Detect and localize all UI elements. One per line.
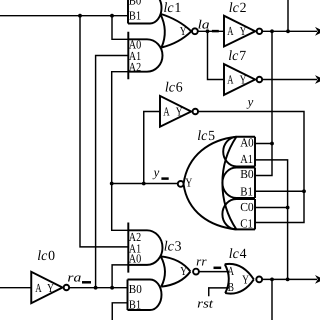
inverter lc2 xyxy=(224,16,255,47)
and-gate lc5 upper (A0,A1) mirrored xyxy=(223,137,255,167)
inverter lc0 xyxy=(31,272,62,303)
svg-text:y: y xyxy=(152,166,160,180)
svg-text:Y: Y xyxy=(240,73,247,87)
and-gate lc5 lower (C0,C1) mirrored xyxy=(222,199,255,229)
wire: lc1.A1 down to ra net xyxy=(96,56,129,288)
svg-text:A: A xyxy=(35,281,41,295)
svg-text:Y: Y xyxy=(180,24,187,38)
svg-text:ra: ra xyxy=(67,270,81,284)
svg-text:B0: B0 xyxy=(129,282,142,296)
svg-text:lc2: lc2 xyxy=(229,1,247,16)
wire: lc1.A2 / y_ / lc3.A2 bus xyxy=(112,72,129,231)
junction node: y_ / A2 bus xyxy=(110,182,114,186)
and-gate lc5 middle (B0,B1) mirrored xyxy=(222,168,255,199)
junction node: ra / lc1.A1 bus xyxy=(94,286,98,290)
junction node: lc2 out / top feedback xyxy=(286,29,290,33)
junction node: y_ / lc6 branch xyxy=(142,182,146,186)
wire: feedback from top edge into lc2 output net xyxy=(287,0,289,31)
arrowhead: lc2 output xyxy=(315,27,320,36)
svg-text:lc5: lc5 xyxy=(197,129,215,144)
and-gate lc1 upper (B0,B1) xyxy=(128,0,162,24)
svg-text:C0: C0 xyxy=(240,200,254,214)
wire: y_ from lc5 output xyxy=(112,183,178,185)
junction node: lc5.C0 / lc4out bus xyxy=(286,206,290,210)
wire: ra net from lc0 output to lc3.B0 xyxy=(70,287,128,289)
wire: main input bus horizontal xyxy=(0,15,128,17)
and-gate lc3 lower (B0,B1) xyxy=(128,280,162,311)
wire: bus from main input down to lc3.A1 xyxy=(80,16,128,247)
svg-text:A: A xyxy=(228,264,234,278)
wire: lc3.A0 branch up from ra net xyxy=(112,265,128,288)
svg-text:B0: B0 xyxy=(129,0,142,8)
arrowhead: lc7 output xyxy=(315,75,320,84)
svg-text:lc4: lc4 xyxy=(229,247,247,262)
svg-text:lc1: lc1 xyxy=(164,1,182,16)
wire: lc5.C0 input xyxy=(255,207,288,209)
or-gate lc3 with output bubble xyxy=(161,256,191,286)
and-gate lc1 lower (A0,A1,A2) xyxy=(128,32,162,80)
junction node: lc5.A0 / lc2 bus xyxy=(270,142,274,146)
wire: lc4 output to right edge xyxy=(263,278,317,280)
wire: lc0 input from left edge xyxy=(0,287,31,289)
svg-text:A1: A1 xyxy=(240,152,253,166)
svg-text:A0: A0 xyxy=(129,251,142,265)
wire: lc5.A1 down to lc4 output net xyxy=(255,160,288,280)
wire: rst input to lc4.B xyxy=(209,288,230,296)
svg-text:lc6: lc6 xyxy=(165,80,183,95)
svg-text:B1: B1 xyxy=(240,184,253,198)
svg-text:y: y xyxy=(246,95,254,109)
svg-text:Y: Y xyxy=(240,24,247,38)
svg-text:A: A xyxy=(163,104,169,118)
net dash after la xyxy=(212,30,219,33)
wire: lc5.B1 input xyxy=(255,190,304,192)
svg-text:la: la xyxy=(198,17,210,31)
svg-text:A2: A2 xyxy=(129,60,141,74)
svg-text:lc3: lc3 xyxy=(164,239,182,254)
svg-text:Y: Y xyxy=(47,281,54,295)
junction node: la / lc7 branch xyxy=(206,29,210,33)
wire: rr net from lc3 output to lc4.A xyxy=(200,271,230,273)
wire: lc5.A0 input xyxy=(255,143,272,145)
inverter lc6 xyxy=(160,96,191,127)
junction node: main bus / lc3.A1 xyxy=(78,14,82,18)
junction node: lc4 out / bottom branch xyxy=(270,278,274,282)
net dash after ra xyxy=(82,281,91,284)
svg-text:lc7: lc7 xyxy=(228,49,246,64)
or-gate lc5 mirrored with output bubble xyxy=(184,137,237,230)
svg-text:Y: Y xyxy=(176,104,183,118)
wire: lc4 output branch down to bottom edge xyxy=(271,279,273,320)
svg-text:A: A xyxy=(227,73,233,87)
wire: lc2 output bus down to lc5.B0 xyxy=(255,31,272,175)
svg-text:rr: rr xyxy=(196,255,206,269)
svg-text:Y: Y xyxy=(180,264,187,278)
inverter lc7 xyxy=(224,64,255,95)
wire: lc7 output to right edge xyxy=(263,79,317,81)
junction node: lc5.B1 / y bus xyxy=(302,189,306,193)
wire: la net from lc1 output to lc2.A xyxy=(198,30,224,32)
svg-text:Y: Y xyxy=(242,273,249,287)
svg-text:rst: rst xyxy=(197,296,213,310)
wire: y net from lc6 output down to lc5.C1 xyxy=(199,112,304,223)
arrowhead: lc4 output xyxy=(315,275,320,284)
wire: lc3.B1 down to bottom edge xyxy=(112,303,127,320)
svg-text:Y: Y xyxy=(185,176,192,190)
svg-text:B1: B1 xyxy=(129,298,141,312)
wire: lc2 output to right edge xyxy=(263,30,317,32)
svg-text:A0: A0 xyxy=(240,136,254,150)
wire: main input branch to lc1.A0 xyxy=(112,16,128,40)
svg-text:B0: B0 xyxy=(240,167,254,181)
junction node: ra / lc3.A0 branch xyxy=(110,286,114,290)
or-gate lc4 with output bubble xyxy=(225,264,254,294)
wire: y_ branch up to lc6.A xyxy=(144,112,160,184)
and-gate lc3 upper (A2,A1,A0) xyxy=(128,223,162,273)
net dash after y_ xyxy=(161,177,168,180)
or-gate lc1 with output bubble xyxy=(160,14,191,48)
svg-text:C1: C1 xyxy=(240,216,253,230)
svg-text:A: A xyxy=(227,24,233,38)
wire: la branch down to lc7.A xyxy=(208,31,225,79)
svg-text:B1: B1 xyxy=(129,8,141,22)
junction node: lc2 out / lc5 bus xyxy=(270,29,274,33)
junction node: lc4 out / lc5 feedback xyxy=(286,278,290,282)
svg-text:B: B xyxy=(228,280,234,294)
svg-text:lc0: lc0 xyxy=(37,249,55,264)
net dash after rr xyxy=(214,267,222,270)
junction node: main bus / lc1.A0 xyxy=(110,14,114,18)
